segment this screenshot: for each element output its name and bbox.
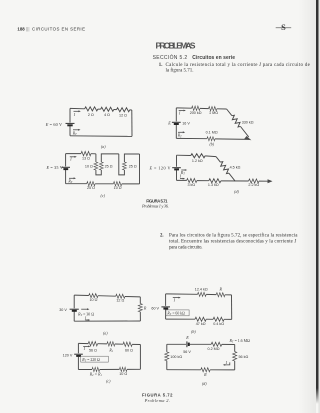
- wire down segment 2 (c): [119, 154, 125, 175]
- svg-text:RT = 60 kΩ: RT = 60 kΩ: [166, 312, 185, 317]
- resistor 12 ohm 72a: [116, 294, 125, 298]
- resistor 25 ohm bottom: [87, 181, 95, 185]
- svg-text:E: E: [185, 335, 189, 340]
- svg-text:0.4 kΩ: 0.4 kΩ: [213, 322, 224, 326]
- wire bottom (a): [70, 135, 132, 138]
- wire top 72c: [78, 343, 140, 344]
- wire right 72a: [139, 297, 141, 321]
- svg-text:10 Ω: 10 Ω: [89, 298, 97, 302]
- svg-text:RT = 1.6 MΩ: RT = 1.6 MΩ: [229, 339, 251, 344]
- junction arrowhead (b): [245, 137, 250, 140]
- resistor 10 ohm 72c: [119, 367, 127, 371]
- wire top-left (c): [66, 153, 96, 155]
- diagonal wire with resistor 330 kohm: [227, 109, 249, 137]
- svg-text:2.: 2.: [160, 234, 164, 239]
- svg-text:R1: R1: [108, 349, 113, 354]
- value labels 72d: [170, 347, 248, 377]
- value labels 72a: [89, 298, 146, 310]
- wire left 72c: [77, 343, 79, 369]
- resistor 56 ohm 72c: [88, 341, 97, 345]
- svg-text:4 Ω: 4 Ω: [104, 113, 110, 117]
- svg-text:E: E: [167, 120, 171, 125]
- svg-text:|||: |||: [26, 26, 29, 31]
- resistor 25 ohm vertical first: [99, 162, 103, 170]
- wire left (d): [176, 155, 178, 180]
- wire top middle (c): [101, 154, 119, 162]
- wire bottom (d): [177, 179, 270, 182]
- svg-text:60 V: 60 V: [151, 307, 159, 311]
- svg-text:188: 188: [17, 26, 25, 31]
- wire left (b): [175, 108, 177, 138]
- current arrow I 72c: [83, 346, 91, 352]
- battery 120V 72c: [74, 354, 83, 356]
- wire bottom (c): [66, 183, 140, 185]
- RT arrow label (a): [72, 129, 81, 136]
- wire left (c): [65, 154, 67, 184]
- svg-text:(a): (a): [101, 144, 106, 149]
- svg-text:(c): (c): [100, 193, 105, 198]
- svg-text:Circuitos en serie: Circuitos en serie: [192, 55, 235, 61]
- svg-text:12.4 kΩ: 12.4 kΩ: [195, 288, 208, 292]
- wire top (d): [177, 155, 217, 156]
- resistor 1.2 kohm: [191, 154, 205, 158]
- resistor 1 Mohm: [209, 106, 217, 110]
- svg-text:0.2 MΩ: 0.2 MΩ: [208, 347, 220, 351]
- wire bottom 72b: [166, 318, 232, 320]
- svg-text:120 V: 120 V: [63, 353, 73, 357]
- RT = 220 ohm boxed label 72c: [81, 356, 109, 362]
- battery 30V 72a: [70, 309, 79, 311]
- svg-text:PROBLEMAS: PROBLEMAS: [156, 40, 196, 50]
- svg-text:0.1 MΩ: 0.1 MΩ: [206, 131, 218, 135]
- svg-text:1.: 1.: [159, 63, 163, 68]
- problem 1 text: [159, 63, 311, 74]
- battery 60V 72b: [161, 307, 170, 309]
- wire top 72d: [167, 343, 235, 345]
- battery E 56V 72d (in top wire): [187, 341, 189, 347]
- U-turn wire 1 (c): [96, 170, 101, 175]
- svg-text:60 Ω: 60 Ω: [125, 349, 133, 353]
- current arrow I 72a: [84, 315, 90, 321]
- svg-text:R2 = R1: R2 = R1: [89, 372, 103, 377]
- value labels (b): [190, 111, 254, 134]
- svg-text:para cada circuito.: para cada circuito.: [169, 246, 203, 251]
- resistor 1.3 kohm: [209, 179, 221, 183]
- wire left (a): [69, 108, 71, 135]
- resistor 200 kohm: [192, 106, 200, 110]
- resistor 10 ohm vertical: [94, 162, 98, 170]
- resistor 0.1 Mohm: [207, 137, 215, 141]
- svg-text:10 Ω: 10 Ω: [119, 372, 127, 376]
- svg-text:2 Ω: 2 Ω: [88, 113, 94, 117]
- wire top (a): [70, 108, 132, 110]
- RT arrow label (b): [177, 131, 186, 138]
- svg-text:(b): (b): [191, 329, 196, 334]
- resistor 0.4 kohm 72b: [213, 317, 224, 321]
- svg-text:FIGURA 5.72: FIGURA 5.72: [142, 393, 173, 398]
- value labels (d): [187, 159, 259, 187]
- resistor 13 ohm: [81, 151, 91, 155]
- svg-text:25 Ω: 25 Ω: [87, 186, 95, 190]
- svg-text:Problema 2.: Problema 2.: [144, 398, 170, 403]
- svg-text:1 MΩ: 1 MΩ: [209, 111, 218, 115]
- wire left 72a: [73, 295, 75, 321]
- svg-text:SECCIÓN 5.2: SECCIÓN 5.2: [153, 54, 188, 61]
- resistor R2 72c: [92, 367, 100, 371]
- problem 2 text: [160, 234, 298, 251]
- svg-text:12 Ω: 12 Ω: [116, 299, 124, 303]
- svg-text:Para los circuitos de la figur: Para los circuitos de la figura 5.72, se…: [169, 234, 298, 239]
- wire right 72b: [231, 295, 233, 320]
- resistor 10 ohm bottom: [113, 182, 121, 186]
- svg-text:56 kΩ: 56 kΩ: [239, 355, 249, 359]
- svg-text:12 Ω: 12 Ω: [119, 114, 127, 118]
- value labels 72c: [89, 348, 133, 377]
- svg-text:1.2 kΩ: 1.2 kΩ: [192, 159, 203, 163]
- svg-text:(c): (c): [106, 378, 111, 383]
- resistor 4 ohm: [101, 107, 114, 111]
- svg-text:(b): (b): [209, 141, 214, 146]
- wire bottom 72a: [74, 320, 140, 322]
- svg-text:E = 120 V: E = 120 V: [149, 166, 171, 171]
- svg-text:la figura 5.71.: la figura 5.71.: [166, 69, 194, 74]
- svg-text:RT = 220 Ω: RT = 220 Ω: [81, 358, 100, 363]
- svg-text:(d): (d): [234, 189, 239, 194]
- resistor 47 kohm 72b: [195, 317, 206, 321]
- wire right (a): [131, 110, 133, 136]
- svg-text:Calcule la resistencia total y: Calcule la resistencia total y la corrie…: [166, 63, 311, 68]
- resistor R 72b: [216, 293, 225, 297]
- svg-text:(d): (d): [202, 381, 207, 386]
- wire top (b): [176, 108, 226, 109]
- svg-text:56 V: 56 V: [183, 350, 191, 354]
- svg-text:200 kΩ: 200 kΩ: [190, 111, 202, 115]
- battery E 60V (a): [66, 123, 75, 125]
- wire bottom 72c: [78, 368, 140, 370]
- svg-text:13 Ω: 13 Ω: [82, 157, 90, 161]
- wire left 72d: [166, 344, 168, 369]
- diagonal wire with resistor 4.5 kohm (d): [216, 157, 235, 182]
- svg-text:4.5 kΩ: 4.5 kΩ: [230, 165, 241, 169]
- wire right 72c: [139, 345, 141, 370]
- resistor 2 ohm: [85, 107, 98, 111]
- current arrow I (b): [178, 110, 186, 116]
- resistor 100 kohm vertical 72d: [165, 352, 169, 361]
- svg-text:3 kΩ: 3 kΩ: [187, 183, 195, 187]
- resistor 25 ohm vertical second: [122, 162, 126, 170]
- svg-text:(a): (a): [103, 331, 108, 336]
- svg-text:CIRCUITOS EN SERIE: CIRCUITOS EN SERIE: [32, 26, 85, 31]
- svg-text:total. Encuentre las resistenc: total. Encuentre las resistencias descon…: [169, 240, 296, 245]
- resistor 12.4 kohm 72b: [198, 292, 207, 296]
- current arrow I 72d (hook): [223, 360, 230, 366]
- svg-text:25 Ω: 25 Ω: [105, 164, 113, 168]
- svg-text:56 Ω: 56 Ω: [89, 348, 97, 352]
- resistor 56 kohm vertical 72d: [233, 352, 237, 361]
- svg-text:E = 60 V: E = 60 V: [45, 122, 62, 127]
- resistor R 72d: [201, 368, 210, 372]
- current arrow I 72b: [173, 297, 181, 303]
- wire right 72d: [234, 345, 236, 370]
- wire bottom 72d: [167, 369, 235, 371]
- wire top 72b: [166, 294, 232, 295]
- wire top 72a: [74, 295, 140, 297]
- svg-text:30 V: 30 V: [59, 308, 67, 312]
- resistor R1 72c: [107, 342, 115, 346]
- resistor 2.2 kohm: [249, 179, 259, 183]
- current arrow I (c): [69, 156, 77, 162]
- battery E 120V (d): [172, 168, 181, 170]
- svg-text:10 Ω: 10 Ω: [114, 186, 122, 190]
- svg-text:47 kΩ: 47 kΩ: [196, 322, 206, 326]
- resistor R vertical 72a: [138, 304, 142, 312]
- current arrow I (a): [73, 110, 81, 117]
- wire left 72b: [165, 294, 167, 319]
- resistor 10 ohm 72a: [89, 294, 98, 298]
- svg-text:Problemas 1 y 36.: Problemas 1 y 36.: [141, 204, 169, 209]
- wire top-right (c): [124, 154, 139, 162]
- resistor 3 kohm: [187, 178, 197, 182]
- value labels (a): [88, 113, 127, 118]
- battery E 35V (c): [61, 167, 70, 169]
- svg-text:R: R: [218, 287, 222, 292]
- svg-text:25 Ω: 25 Ω: [129, 164, 137, 168]
- resistor 12 ohm: [117, 108, 130, 112]
- wire right (c): [139, 154, 141, 184]
- RT = 60 kohm boxed label 72b: [166, 310, 189, 316]
- svg-text:—S—: —S—: [275, 23, 292, 32]
- resistor 0.2 Mohm 72d: [211, 342, 222, 346]
- battery E 16V (b): [172, 122, 181, 124]
- page right edge dark line: [316, 0, 319, 388]
- svg-text:10 Ω: 10 Ω: [85, 164, 93, 168]
- RT arrow label (c): [67, 177, 76, 184]
- header: page number and running title: [17, 26, 85, 31]
- svg-text:1.3 kΩ: 1.3 kΩ: [208, 183, 219, 187]
- svg-text:R: R: [143, 305, 147, 310]
- svg-text:E = 35 V: E = 35 V: [46, 165, 63, 170]
- svg-text:100 kΩ: 100 kΩ: [170, 355, 182, 359]
- wire down segment 1 (c): [95, 154, 97, 162]
- wire bottom (b): [176, 138, 249, 139]
- current arrow I (d): [179, 174, 185, 180]
- RT arrow label (d): [180, 169, 187, 176]
- svg-text:2.2 kΩ: 2.2 kΩ: [248, 183, 259, 187]
- RT arrow label 72a: [77, 308, 94, 317]
- svg-text:330 kΩ: 330 kΩ: [242, 120, 254, 124]
- resistor 60 ohm 72c: [123, 342, 132, 346]
- arrowhead right end (d): [268, 180, 271, 183]
- value labels 72b: [195, 287, 224, 326]
- svg-text:R: R: [203, 372, 207, 377]
- svg-text:16 V: 16 V: [182, 122, 190, 126]
- value labels (c): [82, 157, 137, 190]
